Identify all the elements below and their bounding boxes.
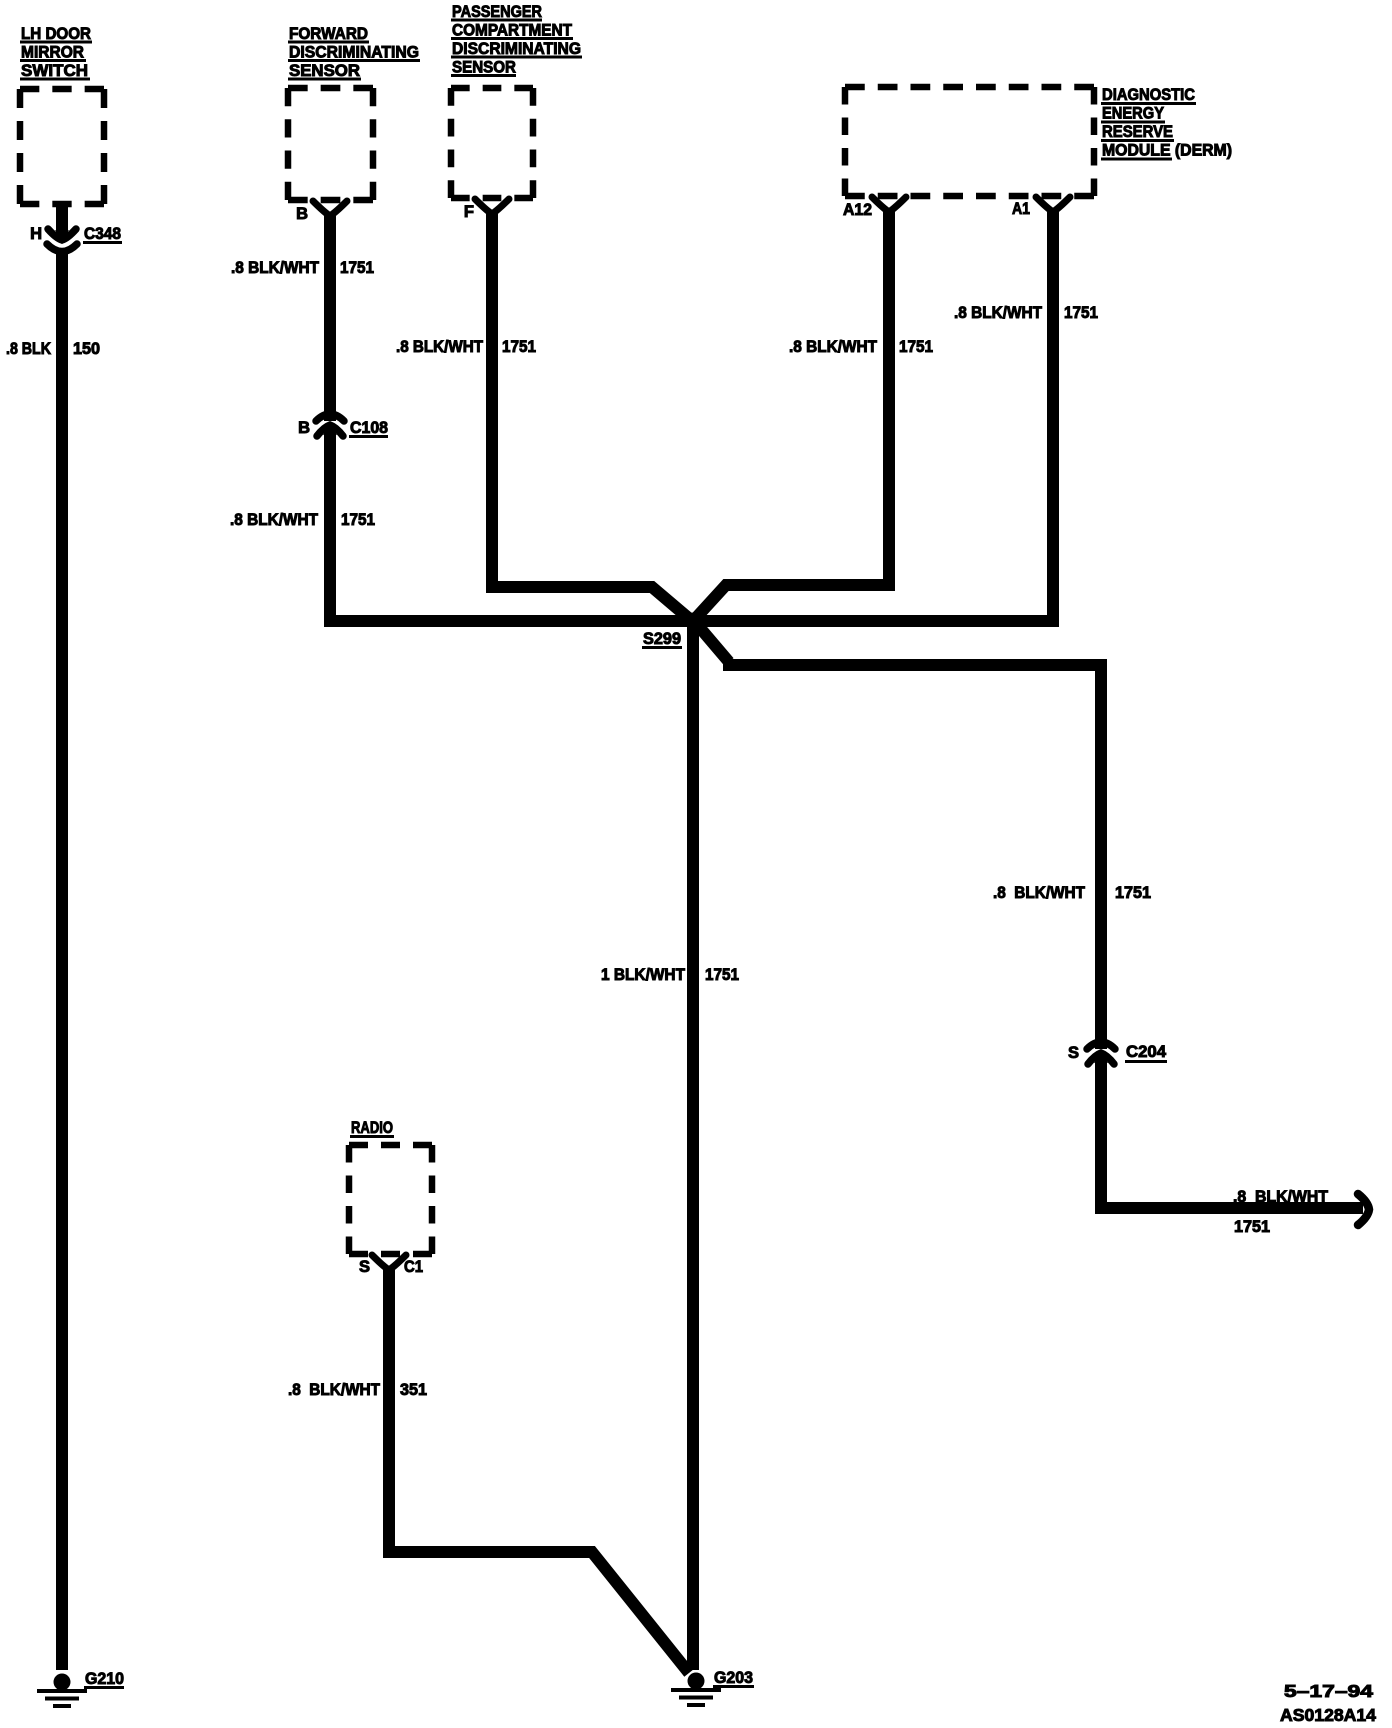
svg-text:SENSOR: SENSOR [289,62,360,80]
svg-text:DISCRIMINATING: DISCRIMINATING [289,44,419,62]
svg-text:1751: 1751 [705,966,739,984]
svg-text:ENERGY: ENERGY [1102,105,1164,123]
svg-text:MIRROR: MIRROR [21,44,84,62]
svg-text:SWITCH: SWITCH [21,62,88,80]
svg-text:DISCRIMINATING: DISCRIMINATING [452,40,581,58]
svg-text:.8 BLK/WHT: .8 BLK/WHT [993,884,1085,902]
svg-text:1 BLK/WHT: 1 BLK/WHT [601,966,685,984]
svg-text:1751: 1751 [340,259,374,277]
svg-text:.8 BLK/WHT: .8 BLK/WHT [230,511,318,529]
svg-text:COMPARTMENT: COMPARTMENT [452,22,572,40]
svg-text:B: B [296,205,308,223]
svg-text:RESERVE: RESERVE [1102,123,1173,141]
svg-text:1751: 1751 [502,338,536,356]
svg-text:1751: 1751 [899,338,933,356]
svg-text:PASSENGER: PASSENGER [452,3,542,21]
svg-text:A1: A1 [1012,200,1030,218]
svg-text:B: B [298,419,310,437]
svg-text:C204: C204 [1126,1043,1167,1061]
svg-text:1751: 1751 [1064,304,1098,322]
svg-text:LH DOOR: LH DOOR [21,25,91,43]
svg-text:.8 BLK/WHT: .8 BLK/WHT [954,304,1042,322]
svg-text:150: 150 [73,340,100,358]
svg-text:S: S [1068,1044,1079,1062]
svg-text:A12: A12 [843,201,872,219]
svg-text:.8 BLK/WHT: .8 BLK/WHT [288,1381,380,1399]
svg-text:MODULE (DERM): MODULE (DERM) [1102,142,1232,160]
svg-text:5–17–94: 5–17–94 [1284,1681,1373,1701]
svg-text:AS0128A14: AS0128A14 [1280,1705,1376,1725]
svg-text:.8 BLK/WHT: .8 BLK/WHT [396,338,483,356]
svg-text:F: F [464,203,474,221]
svg-text:1751: 1751 [1115,884,1151,902]
svg-text:.8 BLK: .8 BLK [6,340,51,358]
svg-text:C1: C1 [404,1258,423,1276]
svg-text:S: S [359,1258,370,1276]
svg-text:1751: 1751 [1234,1218,1270,1236]
svg-text:C348: C348 [84,225,121,243]
svg-text:RADIO: RADIO [351,1119,393,1137]
svg-text:351: 351 [400,1381,427,1399]
svg-text:H: H [30,225,42,243]
svg-text:FORWARD: FORWARD [289,25,368,43]
svg-text:G203: G203 [714,1669,753,1687]
svg-text:.8 BLK/WHT: .8 BLK/WHT [231,259,319,277]
svg-text:DIAGNOSTIC: DIAGNOSTIC [1102,86,1195,104]
svg-text:G210: G210 [85,1670,124,1688]
svg-text:C108: C108 [350,419,388,437]
svg-text:.8 BLK/WHT: .8 BLK/WHT [789,338,877,356]
svg-text:S299: S299 [643,630,681,648]
svg-text:SENSOR: SENSOR [452,59,516,77]
svg-text:.8 BLK/WHT: .8 BLK/WHT [1233,1188,1328,1206]
svg-text:1751: 1751 [341,511,375,529]
